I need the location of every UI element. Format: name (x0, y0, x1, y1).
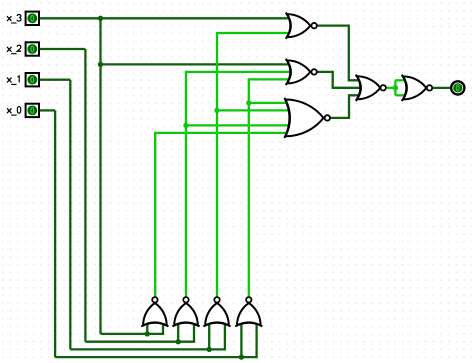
wire x_1 pin to vertical (40, 79, 70, 81)
wire NOR U2 output to NOR U4 middle input (317, 72, 360, 88)
junction rail3 B3 left input (207, 347, 212, 352)
NOR gate B4 bubble (246, 297, 251, 302)
wire bracket vertical to NOR U5 inputs (394, 80, 396, 95)
NOR gate U5 body (402, 75, 432, 101)
wire gate B2 output to NOR U2 middle input (186, 72, 292, 297)
NOR gate U5 bubble (427, 85, 432, 90)
label x_3 (7, 16, 12, 21)
junction B4 net U3 branch (246, 100, 251, 105)
junction rail2 B2 left input (176, 339, 181, 344)
wire branch B4 to NOR U3 input 1 (249, 102, 292, 104)
NOR gate B3 bubble (214, 297, 219, 302)
junction B2 net U3 branch (183, 123, 188, 128)
NOR gate U1 bubble (311, 23, 316, 28)
NOR gate B1 body (141, 297, 168, 326)
wire gate B4 left input stub (240, 322, 242, 357)
junction U4 output bracket (393, 85, 398, 90)
wire NOR U3 output to NOR U4 bottom input (331, 95, 360, 118)
wire rail 4 to gate B4 inputs (55, 322, 257, 357)
wire x_3 pin to NOR U1 top input (40, 17, 292, 19)
wire bracket to NOR U5 top input (395, 79, 406, 81)
wire gate B3 left input stub (208, 322, 210, 349)
wire gate B2 left input stub (177, 322, 179, 342)
NOR gate U1 body (286, 12, 317, 38)
NOR gate B2 bubble (183, 297, 188, 302)
NOR gate B3 body (203, 297, 230, 326)
wire branch B3 to NOR U3 input 2 (217, 109, 292, 111)
wire x_2 pin to vertical (40, 48, 85, 50)
wire gate B1 left input stub (146, 322, 148, 334)
wire gate B1 output to NOR U3 input 5 (155, 133, 292, 297)
NOR gate U4 body (356, 75, 386, 101)
NOR gate U3 body (284, 98, 330, 138)
junction rail4 B4 left input (239, 354, 244, 359)
NOR gate B1 bubble (152, 297, 157, 302)
NOR gate B4 body (235, 297, 262, 326)
input pin x_3 (26, 12, 39, 25)
junction x_3 at top branch (98, 16, 103, 21)
label x_0 (7, 108, 12, 113)
output pin (451, 81, 464, 94)
wire x_0 vertical drop to rail 4 (54, 110, 56, 357)
wire x_0 pin to vertical (40, 109, 55, 111)
wire x_2 vertical drop to rail 2 (84, 49, 86, 342)
wire x_3 branch to NOR U2 top input (101, 63, 293, 65)
wire NOR U5 output to output pin (433, 87, 450, 89)
wire rail 3 to gate B3 inputs (70, 322, 225, 349)
input pin x_2 (26, 42, 39, 55)
NOR gate U4 bubble (381, 85, 386, 90)
wire gate B3 output to NOR U1 bottom input (217, 33, 290, 297)
wire rail 1 to gate B1 inputs (101, 322, 164, 334)
wire rail 2 to gate B2 inputs (85, 322, 194, 342)
junction B3 net U3 branch (214, 108, 219, 113)
input pin x_0 (26, 104, 39, 117)
wire branch B2 to NOR U3 input 4 (186, 124, 292, 126)
junction rail1 B1 left input (145, 331, 150, 336)
NOR gate B2 body (172, 297, 199, 326)
NOR gate U3 bubble (325, 115, 330, 120)
input pin x_1 (26, 73, 39, 86)
wire NOR U1 output to NOR U4 top input (317, 26, 360, 81)
NOR gate U2 bubble (311, 69, 316, 74)
label x_2 (7, 47, 12, 52)
junction x_3 at U2 branch (98, 62, 103, 67)
wire NOR U4 output to junction (387, 87, 396, 89)
wire x_3 vertical drop to rail 1 (99, 18, 101, 334)
wire x_1 vertical drop to rail 3 (69, 80, 71, 350)
wire bracket to NOR U5 bottom input (395, 94, 406, 96)
wire gate B4 output to NOR U2 bottom input (249, 79, 292, 296)
label x_1 (7, 78, 12, 83)
NOR gate U2 body (286, 59, 317, 85)
